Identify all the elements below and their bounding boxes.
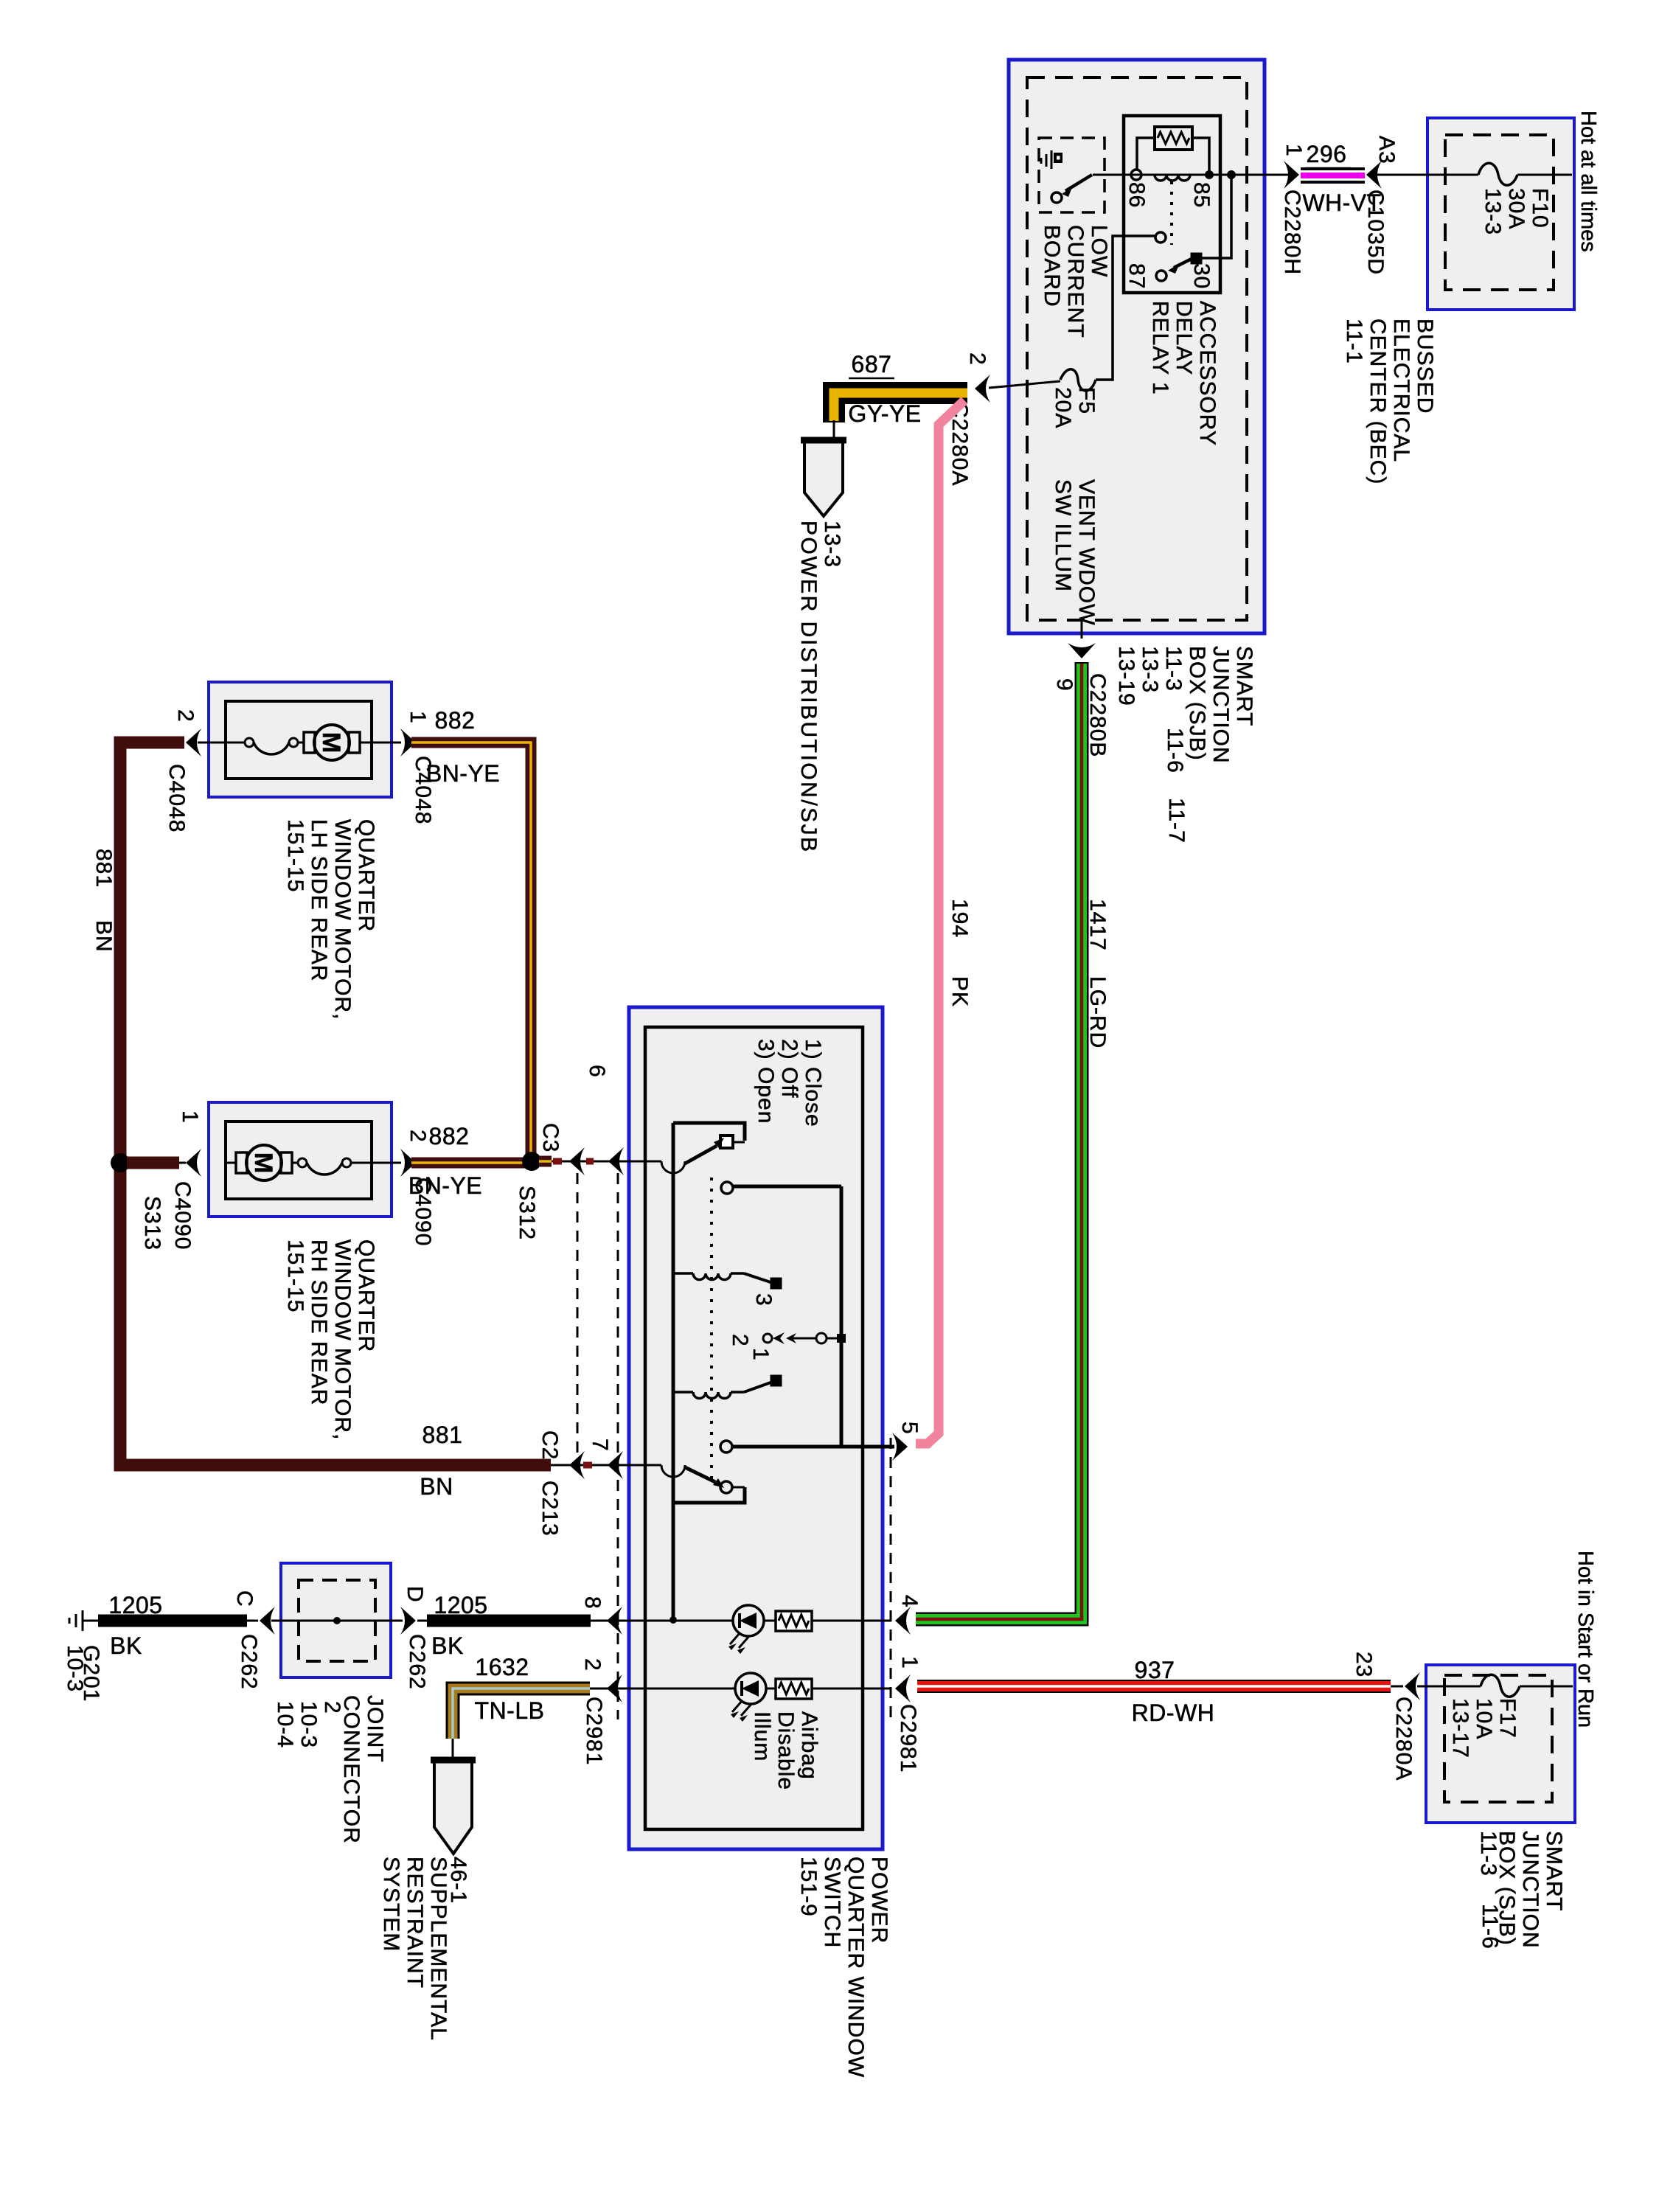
- wire to bus B: [733, 1185, 841, 1189]
- low current board switch blade: [1065, 175, 1092, 191]
- SJB inner dashed box: [1027, 77, 1247, 620]
- wire stub SJB to C2280B: [1081, 622, 1083, 639]
- svg-text:7: 7: [588, 1439, 612, 1452]
- svg-text:87: 87: [1124, 263, 1149, 289]
- svg-text:2: 2: [728, 1334, 752, 1347]
- svg-text:C262: C262: [237, 1634, 261, 1690]
- svg-text:BN: BN: [420, 1473, 453, 1500]
- svg-text:1: 1: [748, 1348, 773, 1361]
- svg-text:JOINT: JOINT: [363, 1695, 387, 1763]
- wire through joint connector: [281, 1620, 391, 1622]
- relay blade pivot circle: [1156, 271, 1166, 281]
- pin 7 arrows: [569, 1451, 585, 1479]
- pin 7 wire inside: [629, 1464, 661, 1467]
- svg-text:6: 6: [585, 1065, 609, 1078]
- svg-text:13-3: 13-3: [820, 521, 844, 568]
- fuse F10: [1478, 163, 1517, 185]
- svg-text:BK: BK: [431, 1632, 464, 1659]
- SJB2 inner dashed box: [1444, 1675, 1552, 1802]
- svg-text:13-3: 13-3: [1481, 188, 1505, 235]
- svg-text:POWER DISTRIBUTION/SJB: POWER DISTRIBUTION/SJB: [796, 521, 821, 854]
- rocker blade lower: [685, 1467, 715, 1482]
- connector arrow 1 C4090: [186, 1149, 201, 1177]
- pin 7 wire: [551, 1464, 629, 1467]
- RH motor internals: [226, 1162, 236, 1164]
- svg-text:BN-YE: BN-YE: [426, 760, 500, 787]
- svg-text:F5: F5: [1074, 387, 1099, 414]
- wire SJB2 to fuse F17: [1426, 1686, 1481, 1688]
- wire resistor right leg: [1192, 138, 1209, 175]
- wire 882 BN-YE RH: [411, 1158, 525, 1169]
- svg-text:WINDOW MOTOR,: WINDOW MOTOR,: [330, 819, 355, 1020]
- wire F5 to connector C2280A: [989, 381, 1060, 388]
- bus wire B: [840, 1186, 844, 1447]
- wire resistor left leg: [1137, 138, 1155, 170]
- bus B wiper junction square: [837, 1334, 846, 1343]
- svg-text:1: 1: [178, 1110, 202, 1124]
- wire 1205 BK left: [98, 1615, 247, 1627]
- svg-text:F17: F17: [1495, 1698, 1520, 1739]
- pin 5 arrow: [892, 1433, 908, 1461]
- svg-text:296: 296: [1307, 141, 1347, 167]
- svg-text:85: 85: [1189, 182, 1214, 208]
- pin 4 arrow: [895, 1607, 911, 1635]
- connector C2981 dashed line left: [617, 1173, 619, 1719]
- wire 1632 TN-LB: [453, 1688, 590, 1739]
- svg-text:2: 2: [580, 1658, 605, 1672]
- svg-text:882: 882: [429, 1123, 470, 1150]
- connector arrow D C262: [391, 1620, 403, 1622]
- svg-text:11-7: 11-7: [1164, 798, 1189, 844]
- wire fuse F10 to BEC right edge: [1517, 174, 1572, 176]
- wire stub S313 to C4090: [127, 1157, 179, 1169]
- connector C2981 dashed line right: [890, 1438, 892, 1719]
- svg-text:RESTRAINT: RESTRAINT: [403, 1857, 427, 1989]
- svg-text:8: 8: [580, 1596, 605, 1610]
- svg-text:3: 3: [751, 1293, 776, 1307]
- connector arrow 2 C2280A: [975, 375, 990, 403]
- connector arrow 9 C2280B: [1068, 643, 1096, 658]
- svg-text:13-19: 13-19: [1114, 646, 1138, 706]
- svg-text:9: 9: [1052, 678, 1077, 692]
- low current board icon: [1040, 158, 1043, 164]
- connector arrow C2280H: [1284, 161, 1299, 189]
- C3 maroon dash: [553, 1158, 562, 1165]
- svg-text:GY-YE: GY-YE: [848, 400, 921, 427]
- relay mechanical link dotted: [1170, 181, 1173, 245]
- svg-text:C2: C2: [538, 1430, 562, 1460]
- svg-text:1417: 1417: [1085, 899, 1110, 951]
- lead to SRS pennant: [452, 1739, 454, 1760]
- svg-text:151-15: 151-15: [283, 819, 307, 892]
- switch inner box: [645, 1027, 863, 1829]
- svg-text:M: M: [317, 732, 345, 753]
- quarter window motor LH box: [209, 682, 392, 797]
- LED resistor 1 box: [776, 1611, 812, 1631]
- svg-text:C2981: C2981: [896, 1704, 920, 1773]
- wire F17 to SJB2 right edge: [1520, 1686, 1573, 1688]
- svg-text:11-3: 11-3: [1161, 646, 1186, 692]
- svg-text:SMART: SMART: [1542, 1831, 1566, 1911]
- bracket contact upper: [673, 1123, 745, 1141]
- SJB box (Smart Junction Box): [1009, 60, 1265, 633]
- bus A end junction: [669, 1616, 677, 1624]
- relay contact 30 square: [1192, 254, 1201, 263]
- fuse F5: [1060, 369, 1096, 391]
- svg-text:QUARTER: QUARTER: [354, 819, 378, 932]
- pennant SUPPLEMENTAL RESTRAINT SYSTEM: [434, 1759, 472, 1854]
- pin 2 arrow: [607, 1674, 622, 1703]
- power quarter window switch box: [629, 1007, 883, 1849]
- quarter window motor RH box: [209, 1102, 392, 1217]
- svg-text:PK: PK: [947, 976, 972, 1007]
- bracket contact lower: [673, 1487, 745, 1503]
- svg-text:30A: 30A: [1504, 188, 1528, 229]
- relay blade: [1174, 259, 1192, 268]
- svg-text:C4048: C4048: [164, 764, 189, 832]
- svg-text:86: 86: [1124, 182, 1149, 208]
- svg-text:1) Close: 1) Close: [801, 1039, 825, 1127]
- svg-text:1: 1: [406, 711, 430, 724]
- svg-text:11-1: 11-1: [1342, 319, 1366, 364]
- svg-text:C2280B: C2280B: [1085, 673, 1110, 757]
- svg-text:SYSTEM: SYSTEM: [379, 1857, 403, 1952]
- LH motor arrow 2 C4048: [186, 728, 201, 757]
- svg-text:WH-VT: WH-VT: [1302, 189, 1381, 216]
- svg-text:Airbag: Airbag: [797, 1711, 821, 1780]
- wire 882 BN-YE LH: [411, 742, 531, 1155]
- svg-text:Illum: Illum: [750, 1711, 774, 1761]
- LED row 2 wire: [629, 1688, 735, 1690]
- svg-text:Hot at all times: Hot at all times: [1576, 111, 1600, 252]
- joint connector inner dashed box: [299, 1580, 375, 1661]
- svg-text:BK: BK: [110, 1632, 142, 1659]
- svg-text:5: 5: [897, 1422, 922, 1435]
- svg-text:CONNECTOR: CONNECTOR: [339, 1695, 364, 1844]
- svg-text:RH SIDE REAR: RH SIDE REAR: [307, 1239, 331, 1405]
- relay resistor box: [1155, 127, 1192, 150]
- svg-text:BOX (SJB): BOX (SJB): [1185, 646, 1209, 761]
- middle contact circle: [721, 1182, 733, 1194]
- svg-text:2: 2: [965, 352, 990, 366]
- svg-text:CURRENT: CURRENT: [1063, 225, 1088, 338]
- bus wire A: [672, 1123, 675, 1620]
- svg-text:23: 23: [1352, 1652, 1376, 1677]
- wire 1417 LG-RD: [916, 662, 1082, 1619]
- svg-text:M: M: [249, 1152, 277, 1173]
- svg-text:LH SIDE REAR: LH SIDE REAR: [307, 819, 331, 981]
- quarter window motor RH inner box: [226, 1121, 372, 1199]
- svg-text:RD-WH: RD-WH: [1132, 1700, 1215, 1726]
- svg-text:SW ILLUM: SW ILLUM: [1051, 479, 1075, 592]
- svg-text:10-3: 10-3: [63, 1645, 87, 1692]
- LED resistor 2 zigzag: [779, 1683, 809, 1694]
- svg-text:10-4: 10-4: [273, 1701, 297, 1748]
- svg-text:BN-YE: BN-YE: [408, 1172, 482, 1199]
- svg-text:937: 937: [1135, 1657, 1175, 1683]
- svg-text:881: 881: [91, 849, 116, 888]
- LED 1: [733, 1605, 764, 1636]
- svg-text:1: 1: [897, 1656, 922, 1669]
- svg-text:LOW: LOW: [1087, 225, 1111, 277]
- selector blade 1: [744, 1382, 773, 1392]
- svg-text:BUSSED: BUSSED: [1413, 319, 1437, 414]
- svg-text:20A: 20A: [1051, 387, 1075, 428]
- BEC box (Bussed Electrical Center): [1427, 118, 1574, 310]
- BEC inner dashed box: [1445, 135, 1554, 290]
- selector coil 1: [673, 1272, 693, 1275]
- joint connector box: [281, 1563, 391, 1677]
- svg-text:1205: 1205: [108, 1592, 162, 1618]
- LH motor right wire: [372, 742, 401, 744]
- svg-text:882: 882: [435, 707, 476, 734]
- wire 87 to fuse F5: [1096, 236, 1155, 380]
- svg-text:Hot in Start or Run: Hot in Start or Run: [1573, 1551, 1597, 1728]
- pin 1 arrow: [895, 1674, 911, 1703]
- svg-text:QUARTER: QUARTER: [354, 1239, 378, 1352]
- svg-text:BOARD: BOARD: [1040, 225, 1064, 307]
- pin 5 output wire: [720, 1441, 732, 1453]
- svg-text:Disable: Disable: [773, 1711, 798, 1790]
- svg-text:SMART: SMART: [1232, 646, 1256, 726]
- pin 6 wire: [552, 1161, 629, 1163]
- wire into SJB: [1265, 174, 1295, 176]
- junction dot resistor-coil: [1205, 170, 1214, 179]
- svg-text:881: 881: [422, 1422, 463, 1448]
- svg-text:C: C: [232, 1590, 257, 1607]
- svg-text:2: 2: [406, 1130, 430, 1143]
- svg-text:S313: S313: [140, 1196, 164, 1251]
- svg-text:D: D: [403, 1586, 427, 1603]
- fuse F17: [1481, 1674, 1520, 1697]
- pin 6 arrows: [569, 1147, 585, 1175]
- rocker blade upper: [685, 1146, 717, 1164]
- svg-text:C3: C3: [538, 1123, 563, 1152]
- svg-text:2) Off: 2) Off: [777, 1039, 801, 1098]
- relay pin 86 terminal circle: [1131, 170, 1141, 180]
- LH motor internals: [226, 742, 245, 744]
- wire to relay contact 30: [1200, 175, 1231, 258]
- svg-text:WINDOW MOTOR,: WINDOW MOTOR,: [330, 1239, 355, 1440]
- wire from BEC edge to fuse F10: [1427, 174, 1478, 176]
- splice S313: [111, 1153, 130, 1172]
- svg-text:F10: F10: [1528, 188, 1552, 229]
- svg-text:13-3: 13-3: [1138, 646, 1162, 693]
- splice S312: [522, 1152, 541, 1171]
- pennant POWER DISTRIBUTION/SJB: [804, 439, 843, 516]
- low current board contact circle: [1051, 192, 1062, 203]
- pin 2 wire: [590, 1688, 629, 1690]
- selector wiper: [763, 1334, 772, 1343]
- svg-text:13-17: 13-17: [1448, 1698, 1472, 1759]
- mechanical link dotted upper: [710, 1178, 713, 1481]
- svg-text:C213: C213: [538, 1481, 562, 1537]
- svg-text:ELECTRICAL: ELECTRICAL: [1389, 319, 1413, 462]
- svg-text:10A: 10A: [1472, 1698, 1496, 1739]
- pin 6 wire inside: [629, 1161, 661, 1163]
- low current board dashed box: [1039, 138, 1105, 212]
- svg-text:RELAY 1: RELAY 1: [1148, 301, 1172, 395]
- svg-text:POWER: POWER: [867, 1857, 891, 1944]
- upper contact square: [720, 1135, 733, 1148]
- relay contact 87 circle: [1155, 232, 1166, 243]
- selector coil 2: [673, 1391, 693, 1394]
- svg-text:151-15: 151-15: [283, 1239, 307, 1312]
- svg-text:LG-RD: LG-RD: [1085, 976, 1110, 1048]
- relay coil on wire: [1155, 175, 1190, 181]
- wire stub S312 to C3: [539, 1156, 552, 1167]
- svg-text:TN-LB: TN-LB: [475, 1697, 545, 1724]
- svg-text:4: 4: [897, 1595, 922, 1608]
- connector arrow C C262: [260, 1607, 275, 1635]
- wire 194 PK: [916, 400, 964, 1444]
- svg-text:DELAY: DELAY: [1172, 301, 1196, 375]
- svg-text:C262: C262: [405, 1634, 429, 1690]
- svg-text:SUPPLEMENTAL: SUPPLEMENTAL: [426, 1857, 451, 2041]
- svg-text:10-3: 10-3: [296, 1701, 321, 1748]
- relay resistor zigzag: [1158, 132, 1189, 144]
- svg-text:JUNCTION: JUNCTION: [1208, 646, 1233, 764]
- LED resistor 1 zigzag: [779, 1615, 809, 1627]
- wire 937 RD-WH: [917, 1680, 1391, 1693]
- svg-text:11-3: 11-3: [1476, 1831, 1500, 1877]
- svg-text:687: 687: [852, 351, 892, 378]
- svg-text:S312: S312: [515, 1186, 539, 1240]
- lower contact circle: [720, 1481, 732, 1493]
- LH motor arrow 1 C4048: [400, 728, 416, 757]
- svg-text:JUNCTION: JUNCTION: [1518, 1831, 1543, 1949]
- contact square 1: [771, 1376, 781, 1385]
- svg-text:11-6: 11-6: [1478, 1904, 1502, 1950]
- connector arrow C1035D: [1366, 161, 1382, 189]
- wire 296 WH-VT: [1301, 167, 1365, 170]
- svg-text:C2981: C2981: [582, 1697, 606, 1765]
- svg-text:QUARTER WINDOW: QUARTER WINDOW: [844, 1857, 868, 2078]
- svg-text:3) Open: 3) Open: [754, 1039, 778, 1124]
- svg-text:2: 2: [320, 1701, 344, 1714]
- svg-text:1632: 1632: [475, 1654, 529, 1680]
- svg-text:1: 1: [1281, 144, 1306, 157]
- joint connector dot: [333, 1617, 341, 1624]
- ground G201: [82, 1610, 84, 1631]
- LED resistor 2 box: [776, 1679, 812, 1699]
- RH motor right wire: [372, 1162, 401, 1164]
- wire 687 GY-YE: [834, 393, 967, 422]
- svg-text:11-6: 11-6: [1163, 728, 1187, 773]
- quarter window motor LH inner box: [226, 701, 372, 779]
- lead to power distribution pennant: [833, 420, 835, 440]
- contact square 3: [771, 1279, 781, 1288]
- svg-text:30: 30: [1189, 263, 1214, 289]
- main wire through relay: [1093, 174, 1265, 176]
- selector blade 3: [744, 1273, 773, 1283]
- svg-text:C2280H: C2280H: [1280, 189, 1304, 275]
- svg-text:194: 194: [947, 899, 972, 938]
- relay box: [1124, 116, 1220, 293]
- wire 881 BN long: [120, 742, 551, 1465]
- LED row 1 wire: [629, 1620, 733, 1622]
- connector C213 dashed line: [577, 1173, 579, 1462]
- SJB box 2 (bottom right): [1426, 1665, 1575, 1823]
- svg-text:2: 2: [173, 709, 198, 723]
- svg-text:CENTER (BEC): CENTER (BEC): [1366, 319, 1390, 484]
- pin 8 arrow: [607, 1607, 622, 1635]
- svg-text:BN: BN: [91, 920, 116, 953]
- svg-text:A3: A3: [1374, 136, 1399, 164]
- connector arrow 23 C2280A: [1391, 1686, 1403, 1688]
- svg-text:C4090: C4090: [170, 1181, 195, 1250]
- junction dot pin 30 branch: [1227, 170, 1236, 179]
- wire BEC to connector C1035D: [1376, 174, 1427, 176]
- svg-text:ACCESSORY: ACCESSORY: [1195, 301, 1220, 446]
- wire 1205 BK right: [417, 1620, 427, 1622]
- pin 8 wire: [591, 1620, 629, 1622]
- svg-text:SWITCH: SWITCH: [820, 1857, 844, 1948]
- LED 2: [735, 1673, 766, 1704]
- svg-text:1205: 1205: [434, 1592, 487, 1618]
- svg-text:151-9: 151-9: [796, 1857, 821, 1917]
- svg-text:VENT WDOW: VENT WDOW: [1074, 479, 1099, 625]
- RH motor arrow 2 C4090: [400, 1149, 416, 1177]
- svg-text:C2280A: C2280A: [1391, 1697, 1416, 1781]
